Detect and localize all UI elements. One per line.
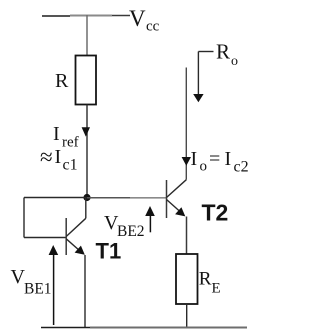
svg-text:c1: c1 [63, 157, 78, 174]
wire top Vcc rail [42, 15, 130, 18]
svg-text:BE1: BE1 [24, 281, 52, 298]
arrow Ro measurement with bracket [193, 52, 213, 103]
svg-text:T2: T2 [202, 200, 229, 226]
svg-text:c2: c2 [234, 159, 249, 176]
arrow VBE2 [145, 206, 155, 232]
svg-text:E: E [212, 281, 221, 297]
transistor T1 [66, 218, 86, 255]
svg-text:o: o [200, 159, 208, 175]
svg-text:I: I [53, 123, 60, 145]
svg-text:R: R [55, 70, 69, 92]
wire T2 collector up [185, 68, 187, 180]
svg-text:I: I [225, 148, 232, 170]
wire bottom ground rail [41, 327, 247, 329]
svg-text:R: R [199, 268, 212, 289]
wire node A to T2 base [87, 197, 167, 199]
wire resistor R to node A [86, 105, 88, 198]
node A junction dot [83, 194, 90, 201]
arrow Iref current direction [82, 127, 90, 136]
label VBE1 [11, 266, 52, 298]
wire T1 collector to node A [85, 198, 87, 219]
transistor T2 [167, 180, 187, 218]
resistor R [76, 56, 97, 105]
svg-text:I: I [55, 146, 62, 168]
resistor RE [176, 254, 198, 304]
arrow VBE1 [49, 245, 59, 325]
svg-text:R: R [216, 40, 230, 64]
label VBE2 [104, 212, 145, 240]
wire T1 emitter to ground rail [84, 255, 86, 327]
wire left branch down [23, 198, 25, 238]
label Ro [216, 40, 238, 69]
svg-text:BE2: BE2 [117, 223, 145, 240]
label Vcc [129, 6, 160, 35]
arrow Io current direction [182, 157, 191, 166]
svg-text:≈: ≈ [40, 145, 53, 170]
wire T1 base [24, 237, 66, 239]
wire T2 emitter to resistor RE [186, 217, 188, 255]
wire resistor RE to ground rail [186, 304, 188, 327]
wire node A to left branch [24, 197, 87, 199]
wire Vcc rail to resistor R [86, 15, 88, 55]
svg-text:=: = [209, 148, 220, 170]
svg-text:V: V [129, 6, 146, 31]
svg-text:o: o [231, 54, 238, 69]
svg-text:cc: cc [146, 19, 160, 35]
svg-text:I: I [191, 148, 198, 170]
label Io = Ic2 [191, 148, 249, 176]
label RE [199, 268, 221, 296]
label approx Ic1 [40, 145, 78, 174]
svg-text:T1: T1 [96, 239, 122, 264]
svg-text:ref: ref [62, 135, 79, 151]
label Iref [53, 123, 79, 151]
